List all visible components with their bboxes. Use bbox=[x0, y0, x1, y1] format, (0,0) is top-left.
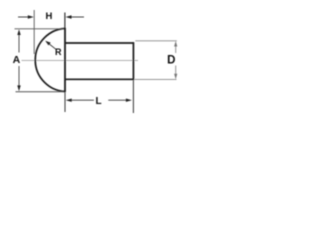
H right arrow tail bbox=[72, 16, 85, 18]
rivet head (dome + flat face) bbox=[35, 28, 98, 91]
D bottom extension line bbox=[135, 78, 177, 80]
H left extension line bbox=[33, 10, 35, 54]
H right arrowhead bbox=[66, 15, 72, 18]
H left arrow tail bbox=[18, 16, 29, 18]
A up arrowhead bbox=[17, 29, 20, 35]
A dimension line upper bbox=[18, 33, 20, 53]
L right tail bbox=[108, 99, 126, 101]
svg-text:A: A bbox=[13, 54, 21, 66]
L left arrowhead bbox=[66, 99, 72, 102]
centerline bbox=[22, 59, 139, 61]
L left tail bbox=[72, 99, 94, 101]
H left arrowhead bbox=[28, 15, 34, 18]
D top extension line bbox=[135, 40, 177, 42]
L left extension line bbox=[64, 93, 66, 113]
A bottom extension line bbox=[16, 91, 65, 93]
svg-text:H: H bbox=[45, 11, 52, 22]
shank bottom line bbox=[66, 78, 135, 80]
svg-text:D: D bbox=[167, 55, 175, 67]
R leader line bbox=[49, 44, 56, 50]
shank end line bbox=[132, 42, 134, 80]
D dimension line lower bbox=[175, 66, 177, 77]
rivet head flat face bbox=[64, 28, 66, 92]
L right arrowhead bbox=[126, 99, 132, 102]
D down arrowhead bbox=[174, 74, 177, 80]
H right extension line bbox=[64, 13, 66, 29]
svg-text:L: L bbox=[95, 96, 101, 107]
L right extension line bbox=[132, 81, 134, 114]
shank top line bbox=[66, 42, 135, 44]
A down arrowhead bbox=[17, 85, 20, 91]
A top extension line bbox=[15, 28, 65, 30]
D up arrowhead bbox=[174, 41, 177, 47]
D dimension line upper bbox=[175, 44, 177, 53]
A dimension line lower bbox=[18, 66, 20, 87]
R leader arrowhead bbox=[45, 41, 51, 46]
svg-text:R: R bbox=[55, 47, 62, 57]
